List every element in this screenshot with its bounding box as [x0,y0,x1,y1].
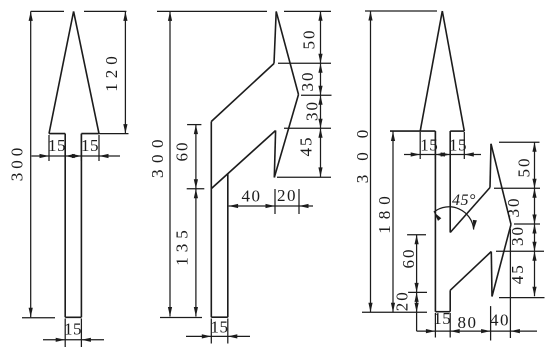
dim 20 right figure [392,290,418,331]
dim 300 right figure [353,11,437,312]
svg-text:15: 15 [211,318,229,337]
svg-text:180: 180 [375,190,394,234]
dim 135 middle figure [173,189,198,317]
svg-text:40: 40 [242,186,262,205]
svg-text:120: 120 [102,51,121,92]
svg-text:40: 40 [490,311,510,330]
dim 180 right figure [375,132,395,313]
svg-text:300: 300 [8,144,27,182]
svg-text:30: 30 [504,197,523,218]
svg-text:45: 45 [508,263,527,284]
straight arrow outline (left figure) [49,11,99,317]
dim 15 stem width bottom left figure [43,319,104,348]
svg-text:60: 60 [173,141,192,162]
svg-text:45°: 45° [452,192,476,209]
straight-right arrow outline (right figure) [390,11,511,312]
svg-text:20: 20 [392,290,411,311]
svg-text:15: 15 [449,135,467,154]
svg-text:60: 60 [399,248,418,269]
svg-text:50: 50 [300,29,319,50]
dim 300 middle figure [148,11,331,317]
svg-text:50: 50 [515,157,534,178]
dim 15 15 at head base [32,134,121,161]
svg-text:30: 30 [303,100,322,121]
dim 120 head height [99,11,129,133]
svg-text:30: 30 [298,71,317,92]
svg-text:80: 80 [458,313,478,332]
svg-text:300: 300 [353,116,372,184]
dim 15 stem width bottom middle figure [186,318,250,344]
dim 60 middle figure [173,125,205,189]
svg-text:300: 300 [148,133,167,178]
dim 300 left figure [8,11,127,317]
svg-text:45: 45 [297,136,316,157]
45 degree angle annotation [434,192,477,230]
bottom chain dims 15 80 40 right figure [417,306,537,340]
right-turn arrow outline (middle figure) [211,11,298,317]
svg-text:15: 15 [81,136,99,155]
svg-text:15: 15 [433,309,451,328]
svg-text:15: 15 [64,319,82,338]
svg-text:15: 15 [48,136,66,155]
dim 15 15 at head base right figure [404,131,481,159]
svg-text:135: 135 [173,225,192,266]
svg-text:15: 15 [420,135,438,154]
svg-text:20: 20 [277,186,297,205]
right chain dims 50 30 30 45 right figure [494,142,545,338]
dim 40 and 20 middle figure [229,186,313,214]
svg-text:30: 30 [508,225,527,246]
dim 60 right figure [399,235,427,293]
right chain dims 50 30 30 45 middle figure [277,11,332,177]
